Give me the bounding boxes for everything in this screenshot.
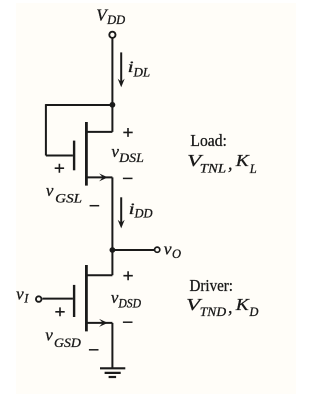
transistor ML load: gate bar — [73, 141, 75, 171]
svg-text:Load:: Load: — [190, 131, 227, 150]
label iDL — [128, 59, 151, 80]
svg-text:v: v — [46, 181, 54, 200]
svg-text:DD: DD — [106, 13, 125, 27]
wire load gate lead — [46, 155, 73, 157]
svg-text:GSL: GSL — [55, 190, 82, 205]
plus vDSD — [123, 271, 132, 280]
wire top horizontal to gate loop — [46, 104, 113, 106]
svg-text:DD: DD — [134, 207, 153, 221]
svg-text:O: O — [172, 247, 181, 261]
svg-text:D: D — [248, 305, 258, 319]
junction dot at output node — [110, 247, 116, 253]
wire left vertical of gate loop — [45, 104, 47, 155]
svg-text:DL: DL — [133, 65, 151, 80]
current arrow iDD line — [120, 197, 122, 223]
ground symbol — [100, 368, 125, 377]
wire VDD to load drain — [111, 38, 113, 132]
wire driver source to ground — [111, 323, 113, 368]
svg-text:DSL: DSL — [118, 150, 144, 165]
wire vI input lead — [42, 298, 73, 300]
label VDD — [96, 5, 125, 27]
label vO — [164, 240, 181, 261]
label vDSD — [111, 288, 141, 311]
label vI — [16, 285, 29, 306]
arrowhead iDL — [118, 79, 125, 88]
label vDSL — [111, 142, 143, 165]
transistor ML load: drain stub — [86, 131, 112, 133]
plus/minus polarity marks — [55, 128, 133, 350]
plus vGSD — [55, 307, 64, 316]
minus vGSD — [89, 349, 99, 351]
svg-text:K: K — [235, 295, 251, 314]
svg-text:v: v — [16, 285, 24, 304]
svg-text:,: , — [228, 154, 233, 174]
label vGSL — [46, 181, 82, 205]
label VTNL, KL — [187, 151, 257, 176]
wire output node to driver drain — [111, 250, 113, 275]
svg-text:Driver:: Driver: — [190, 276, 234, 295]
arrowhead load source (points right) — [99, 173, 108, 181]
arrowhead iDD — [118, 220, 125, 229]
svg-text:GSD: GSD — [54, 335, 81, 350]
svg-text:v: v — [164, 240, 172, 259]
arrowhead driver source (points right) — [99, 319, 108, 327]
label iDD — [129, 201, 153, 221]
minus vDSL — [123, 177, 133, 179]
transistor ML load: source stub — [86, 176, 112, 178]
transistor ML load: channel bar — [85, 122, 88, 186]
wire load source to output node — [111, 177, 113, 250]
node vI terminal circle — [36, 296, 42, 302]
svg-text:DSD: DSD — [117, 296, 141, 310]
svg-text:TNL: TNL — [200, 162, 226, 176]
node vO terminal circle — [155, 247, 160, 252]
svg-text:TND: TND — [200, 305, 226, 319]
junction dot at load drain/gate node — [110, 102, 116, 108]
svg-text:,: , — [228, 297, 233, 317]
wire output node to vO terminal — [112, 249, 154, 251]
label vGSD — [45, 325, 81, 349]
svg-text:v: v — [45, 325, 53, 344]
node VDD terminal circle — [109, 32, 115, 38]
plus vDSL — [123, 128, 132, 137]
label VTND, KD — [186, 295, 258, 319]
transistor MD driver: channel bar — [85, 265, 88, 331]
transistor MD driver: gate bar — [73, 285, 75, 317]
current arrow iDL line — [120, 52, 122, 82]
svg-text:I: I — [23, 291, 29, 305]
minus vGSL — [90, 205, 100, 207]
transistor MD driver: source stub — [86, 322, 112, 324]
svg-text:K: K — [235, 151, 251, 170]
minus vDSD — [123, 321, 133, 323]
svg-text:v: v — [111, 142, 119, 161]
plus vGSL — [55, 164, 64, 173]
svg-text:L: L — [249, 162, 257, 176]
transistor MD driver: drain stub — [86, 274, 112, 276]
